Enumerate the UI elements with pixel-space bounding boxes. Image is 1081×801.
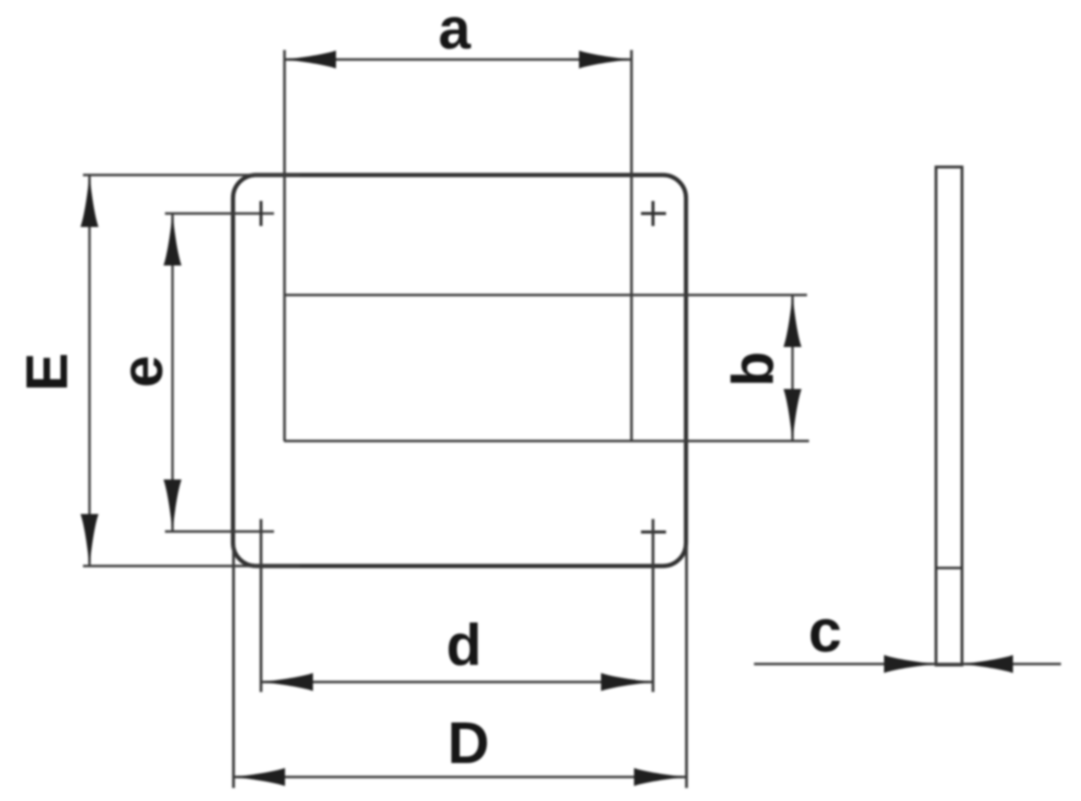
dimension line e <box>171 214 173 532</box>
hole cross bottom-right horizontal arm <box>641 531 666 534</box>
dimension line d <box>261 681 653 683</box>
arrowhead e bottom <box>164 480 182 532</box>
side view bar <box>936 167 962 665</box>
arrowhead c right <box>961 655 1013 673</box>
arrowhead d left <box>261 673 313 691</box>
side view parting line <box>936 567 962 569</box>
hole cross top-left <box>260 201 263 226</box>
arrowhead E bottom <box>81 514 99 566</box>
dimension D extension left <box>232 545 235 788</box>
arrowhead d right <box>601 673 653 691</box>
slot left edge / a extension line <box>283 50 286 441</box>
dimension e extension bottom <box>165 530 274 533</box>
slot right edge / a extension line <box>630 50 633 441</box>
arrowhead b top <box>784 295 802 347</box>
dimension d extension left (through bottom-left hole cross) <box>260 519 263 692</box>
svg-text:a: a <box>438 0 471 62</box>
dimension line c <box>754 663 1061 665</box>
arrowhead b bottom <box>784 389 802 441</box>
svg-text:b: b <box>721 351 786 386</box>
arrowhead a left <box>284 51 336 69</box>
arrowhead e top <box>164 214 182 266</box>
arrowhead D left <box>233 768 285 786</box>
svg-text:e: e <box>110 355 175 387</box>
slot top edge / b extension line <box>284 294 807 297</box>
dimension line b <box>791 295 793 441</box>
arrowhead c left <box>884 655 936 673</box>
svg-text:E: E <box>15 353 80 392</box>
dimension E extension top <box>83 174 300 177</box>
dimension line E <box>88 175 90 566</box>
dimension E extension bottom <box>83 565 300 568</box>
arrowhead a right <box>579 51 631 69</box>
dimension line a <box>284 58 631 60</box>
hole cross top-right <box>641 201 666 226</box>
dimension D extension right <box>685 545 688 788</box>
arrowhead E top <box>81 175 99 227</box>
dimension d extension right (through bottom-right hole cross) <box>652 519 655 692</box>
plate outline (front view) <box>233 175 686 566</box>
svg-text:c: c <box>808 598 841 665</box>
arrowhead D right <box>634 768 686 786</box>
svg-text:d: d <box>446 613 481 678</box>
dimension e extension top <box>165 212 274 215</box>
dimension line D <box>233 776 686 778</box>
slot bottom edge / b extension line <box>284 440 809 443</box>
svg-text:D: D <box>448 711 490 776</box>
